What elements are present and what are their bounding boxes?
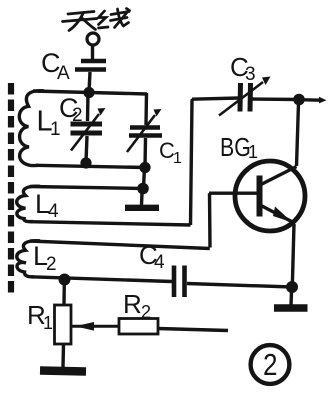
svg-text:4: 4	[48, 201, 59, 222]
node junction antenna/tank	[83, 87, 94, 98]
svg-text:2: 2	[141, 302, 151, 322]
wire L2 junction to R1	[62, 283, 66, 305]
wire antenna to CA	[91, 46, 94, 60]
wire base riser to L2	[208, 193, 212, 247]
wire L2 bottom	[31, 277, 172, 282]
wire C1 junction down to L4/ground	[144, 167, 145, 188]
capacitor C3	[219, 77, 271, 116]
node collector junction	[293, 94, 305, 106]
svg-text:A: A	[57, 63, 70, 84]
label C2	[59, 93, 83, 126]
node emitter junction	[286, 281, 298, 293]
ground at L4 top	[125, 193, 159, 208]
label C4	[139, 240, 165, 273]
wire collector vertical	[297, 103, 299, 166]
capacitor C2	[71, 92, 106, 162]
svg-text:R: R	[123, 289, 142, 319]
svg-text:2: 2	[46, 254, 57, 275]
wire L2 top	[30, 241, 210, 249]
wire feedback riser to C3	[191, 99, 193, 225]
node C1 bottom junction	[139, 162, 150, 173]
node C2 bottom junction	[80, 157, 91, 168]
wire R2 output	[158, 329, 228, 331]
svg-text:2: 2	[72, 105, 83, 126]
svg-text:3: 3	[245, 64, 256, 85]
resistor R1 (potentiometer)	[55, 305, 72, 367]
capacitor CA	[75, 61, 106, 70]
svg-text:2: 2	[263, 347, 278, 382]
label R2	[123, 289, 151, 322]
wire stub right of collector node	[304, 97, 327, 104]
antenna terminal	[87, 33, 99, 45]
wire C3 right to collector node	[252, 97, 299, 101]
label C1	[159, 138, 182, 167]
label L2	[33, 241, 57, 275]
resistor R2	[119, 319, 158, 335]
label C3	[230, 52, 256, 85]
inductor L1	[19, 91, 44, 166]
svg-text:4: 4	[154, 252, 165, 273]
wire C4 to emitter node	[187, 284, 292, 288]
wire L4 top	[30, 187, 143, 189]
svg-text:1: 1	[173, 150, 182, 167]
ferrite core dashed line	[8, 83, 14, 296]
label L1	[37, 106, 61, 141]
wire C3 left	[192, 98, 239, 99]
inductor L2	[17, 241, 40, 277]
label CA	[41, 48, 70, 84]
wire L4 bottom	[30, 222, 191, 225]
node L2 bottom junction	[59, 274, 71, 286]
ground at emitter	[274, 292, 308, 308]
inductor L4	[17, 186, 40, 221]
wire base lead	[209, 191, 257, 194]
label BG1	[220, 133, 258, 163]
wire tank top	[33, 91, 147, 94]
capacitor C1	[127, 93, 162, 167]
figure number circle 2	[251, 345, 290, 384]
svg-text:1: 1	[248, 142, 258, 162]
svg-text:1: 1	[43, 313, 53, 333]
antenna label 天线	[63, 9, 130, 31]
wiper arrow into R1	[72, 322, 120, 331]
label L4	[35, 189, 59, 222]
ground at R1	[40, 371, 86, 372]
svg-text:BG: BG	[220, 133, 251, 163]
wire tank bottom	[36, 165, 145, 167]
wire CA to tank top	[89, 72, 90, 92]
wire emitter vertical	[292, 224, 294, 287]
label R1	[27, 300, 53, 333]
node L4 top junction	[137, 183, 149, 195]
transistor BG1	[235, 161, 305, 231]
capacitor C4	[174, 266, 185, 298]
